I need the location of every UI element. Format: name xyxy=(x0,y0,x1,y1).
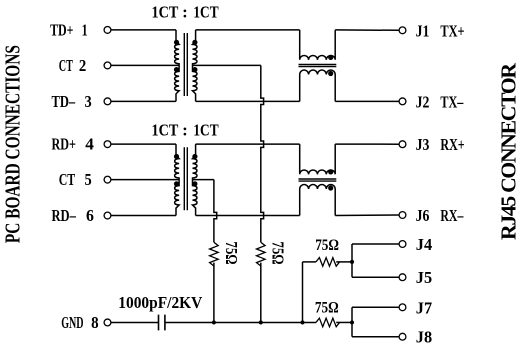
svg-text:J2: J2 xyxy=(416,92,430,111)
wire R1 feed vertical (T2 CT down) with crossover hop xyxy=(214,180,217,243)
svg-text:CT: CT xyxy=(59,170,76,189)
svg-text:RD+: RD+ xyxy=(52,135,76,154)
CMC2 common-mode choke bottom winding xyxy=(300,185,336,216)
resistor R2 75ohm (vertical) xyxy=(256,242,265,266)
svg-text:TD–: TD– xyxy=(52,92,76,111)
svg-text:J4: J4 xyxy=(416,235,433,254)
wire CMC1 to J1 xyxy=(335,29,399,31)
transformer T1 primary winding (left) xyxy=(175,30,180,101)
terminal pin 1 (TD+) xyxy=(104,27,111,34)
svg-text:J3: J3 xyxy=(416,135,430,154)
terminal J2 xyxy=(399,98,406,105)
wire to J7 xyxy=(352,306,399,308)
wire GND pin to capacitor C1 xyxy=(111,321,159,323)
svg-text:1: 1 xyxy=(82,20,88,39)
transformer T2 polarity dots xyxy=(174,154,179,159)
wire J7/J8 riser xyxy=(351,307,353,336)
CMC1 common-mode choke bottom winding xyxy=(300,70,336,101)
wire pin1 to T1 primary top xyxy=(111,29,176,31)
junction R2/rail xyxy=(259,320,263,324)
transformer T2 core xyxy=(184,147,187,210)
terminal pin 3 (TD&#8211;) xyxy=(104,98,111,105)
resistor R4 75ohm (horizontal, on rail) xyxy=(316,318,340,327)
wire CMC2 to J6 xyxy=(335,214,399,217)
terminal J8 xyxy=(399,333,406,340)
capacitor C1 1000pF/2KV xyxy=(159,315,165,331)
svg-text:75Ω: 75Ω xyxy=(269,241,288,264)
svg-text:GND: GND xyxy=(61,313,83,332)
transformer T1 secondary winding (right) xyxy=(193,30,198,101)
svg-text:75Ω: 75Ω xyxy=(315,237,339,254)
CMC2 common-mode choke top winding xyxy=(300,144,336,174)
terminal J1 xyxy=(399,27,406,34)
wire pin5 to T2 primary center tap xyxy=(111,179,179,181)
svg-text:75Ω: 75Ω xyxy=(222,241,241,264)
wire ground rail (capacitor to R4) xyxy=(165,321,316,323)
wire pin2 to T1 primary center tap xyxy=(111,64,179,66)
CMC2 common-mode choke polarity dots xyxy=(328,169,333,174)
wire R2 feed vertical (T1 CT down) with crossover hops xyxy=(261,65,264,242)
resistor R1 75ohm (vertical) xyxy=(210,242,219,266)
wire to J8 xyxy=(352,336,399,338)
terminal pin 8 (GND) xyxy=(104,319,111,326)
wire R2 to ground rail xyxy=(260,263,262,323)
wire CMC1 to J2 xyxy=(335,100,399,102)
svg-text:J7: J7 xyxy=(416,298,433,317)
terminal J3 xyxy=(399,141,406,148)
resistor R3 75ohm (horizontal) xyxy=(316,258,340,267)
CMC1 common-mode choke top winding xyxy=(300,30,336,60)
svg-text:1CT: 1CT xyxy=(193,120,219,139)
junction J4/J5 node xyxy=(350,260,354,264)
transformer T1 polarity dots xyxy=(174,40,179,45)
svg-text:J1: J1 xyxy=(416,21,430,40)
wire R1 to ground rail xyxy=(213,263,215,323)
svg-text:1CT: 1CT xyxy=(152,120,179,139)
svg-text:75Ω: 75Ω xyxy=(315,300,339,317)
svg-text:J8: J8 xyxy=(416,328,432,347)
wire to J4 xyxy=(352,243,399,245)
svg-text:J6: J6 xyxy=(416,206,430,225)
svg-text:1000pF/2KV: 1000pF/2KV xyxy=(118,293,202,312)
wire T2 secondary center tap to R1 xyxy=(193,179,214,181)
wire pin4 to T2 primary top xyxy=(111,143,176,145)
wire to J5 xyxy=(352,276,399,278)
wire CMC2 to J3 xyxy=(335,143,399,145)
wire rail riser to R3 xyxy=(303,261,317,263)
svg-text:8: 8 xyxy=(91,313,99,332)
svg-text:RJ45 CONNECTOR: RJ45 CONNECTOR xyxy=(497,63,521,240)
wire node to J4/J5 riser xyxy=(351,244,353,277)
wire T1 secondary center tap to R2 xyxy=(193,64,261,66)
svg-text::: : xyxy=(182,120,188,139)
svg-text:RX+: RX+ xyxy=(440,135,464,154)
svg-text:5: 5 xyxy=(85,170,92,189)
junction R3 riser/rail xyxy=(300,320,304,324)
transformer T1 core xyxy=(184,33,187,96)
wire pin6 to T2 primary bottom xyxy=(111,215,176,217)
terminal J6 xyxy=(399,212,406,219)
svg-text:TX+: TX+ xyxy=(440,21,464,40)
svg-text:PC BOARD CONNECTIONS: PC BOARD CONNECTIONS xyxy=(1,45,25,243)
terminal J4 xyxy=(399,241,406,248)
terminal pin 6 (RD&#8211;) xyxy=(104,212,111,219)
svg-text:TD+: TD+ xyxy=(50,20,73,39)
svg-text:2: 2 xyxy=(79,56,86,75)
svg-text:TX–: TX– xyxy=(440,92,463,111)
wire T1 secondary bottom to CMC1 xyxy=(196,100,300,102)
svg-text:RX–: RX– xyxy=(440,206,463,225)
svg-text:1CT: 1CT xyxy=(193,3,219,22)
junction R1/rail xyxy=(212,320,216,324)
terminal pin 5 (CT) xyxy=(104,176,111,183)
svg-text:RD–: RD– xyxy=(52,206,77,225)
svg-text:CT: CT xyxy=(59,56,73,75)
wire T1 secondary top to CMC1 xyxy=(196,29,300,31)
svg-text:4: 4 xyxy=(85,135,94,154)
CMC2 common-mode choke core xyxy=(299,179,337,181)
terminal J5 xyxy=(399,274,406,281)
transformer T2 primary winding (left) xyxy=(175,144,180,215)
wire R4 to J7/J8 node xyxy=(336,321,352,323)
junction J7/J8 node xyxy=(350,320,354,324)
terminal J7 xyxy=(399,304,406,311)
terminal pin 4 (RD+) xyxy=(104,141,111,148)
wire T2 secondary bottom to CMC2 xyxy=(196,215,300,217)
CMC1 common-mode choke core xyxy=(299,65,337,67)
svg-text:J5: J5 xyxy=(416,268,432,287)
wire R3 riser from rail xyxy=(302,262,304,323)
svg-text:6: 6 xyxy=(86,206,94,225)
svg-text::: : xyxy=(182,3,188,22)
transformer T2 secondary winding (right) xyxy=(193,144,198,215)
terminal pin 2 (CT) xyxy=(104,62,111,69)
svg-text:3: 3 xyxy=(85,92,92,111)
CMC1 common-mode choke polarity dots xyxy=(328,55,333,60)
wire pin3 to T1 primary bottom xyxy=(111,100,176,102)
svg-text:1CT: 1CT xyxy=(152,3,179,22)
wire R3 to J4/J5 node xyxy=(336,261,352,263)
wire T2 secondary top to CMC2 xyxy=(196,143,300,145)
